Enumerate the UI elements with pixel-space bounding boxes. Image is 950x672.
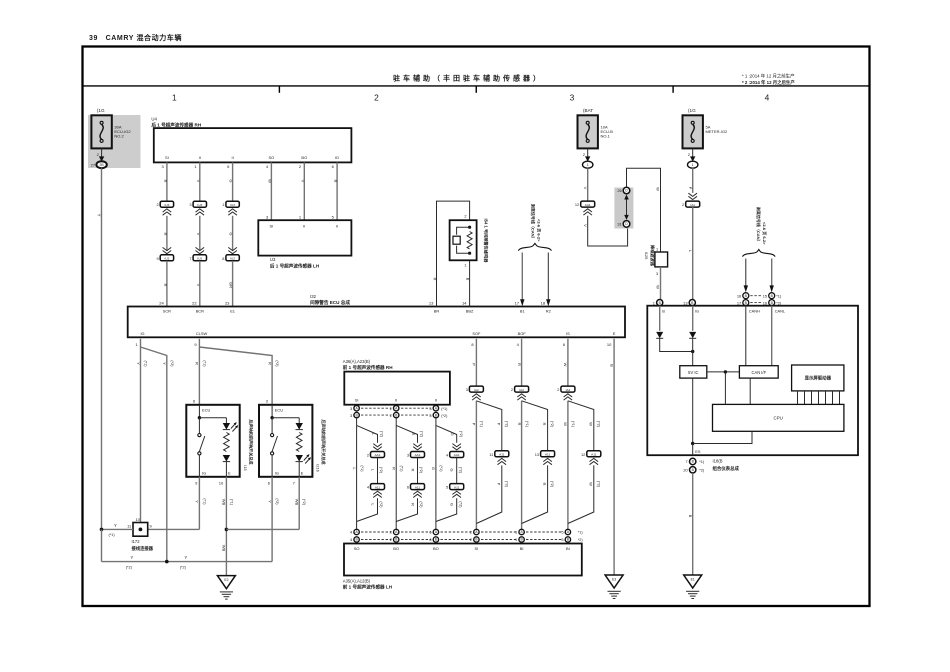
wire R (*2) rejoin — [396, 498, 423, 521]
fuse ECU-B NO.1 (10A) — [578, 108, 614, 168]
svg-text:BBZ: BBZ — [466, 309, 474, 314]
diagram outer frame — [83, 47, 870, 607]
svg-text:27: 27 — [91, 162, 96, 167]
svg-text:WB: WB — [295, 499, 300, 506]
wire R (*1) IA2 to connector — [517, 401, 529, 529]
front sensor A36 label — [343, 359, 393, 371]
connector IA2 pin 2 — [557, 386, 575, 400]
clearance warning ECU I32 label — [310, 294, 350, 306]
svg-text:后 1 号超声波传感器 LH: 后 1 号超声波传感器 LH — [270, 262, 320, 269]
svg-text:(*1): (*1) — [144, 360, 148, 367]
CAN I/F block — [739, 366, 778, 378]
svg-text:IG: IG — [695, 309, 699, 314]
dashes A35 connector row B — [361, 538, 583, 542]
svg-text:Y: Y — [185, 555, 188, 560]
svg-text:* 2 :2014 年 12 月之后生产: * 2 :2014 年 12 月之后生产 — [742, 79, 795, 86]
svg-text:(*2): (*2) — [380, 431, 384, 438]
svg-text:W: W — [588, 482, 593, 486]
wire Y (*1) ECU pin 1 down — [136, 339, 148, 523]
svg-text:P: P — [496, 483, 501, 486]
svg-text:ID: ID — [335, 155, 339, 160]
svg-text:(*2): (*2) — [419, 501, 423, 508]
wire Y (*2) bottom run — [102, 529, 273, 569]
fuse METER-IG2 (5A) — [683, 108, 729, 168]
svg-text:E3: E3 — [612, 578, 616, 582]
svg-text:NO.1: NO.1 — [601, 134, 611, 139]
svg-text:(*2): (*2) — [596, 481, 600, 488]
svg-text:(*2): (*2) — [504, 481, 508, 488]
svg-text:2: 2 — [157, 202, 159, 207]
svg-text:II: II — [303, 223, 305, 228]
clearance warning ECU I32 box — [128, 307, 625, 338]
svg-text:P: P — [688, 187, 693, 190]
connector 1(A)/1(B) above A35 — [515, 529, 524, 542]
svg-text:V: V — [583, 224, 588, 227]
wire R (*2) branch to A11 — [522, 401, 555, 451]
svg-text:SI: SI — [475, 546, 479, 551]
wire L (*1) straight — [352, 418, 364, 529]
wire W (*2) A11 down — [568, 465, 601, 523]
svg-text:驻车辅助（丰田驻车辅助传感器）: 驻车辅助（丰田驻车辅助传感器） — [393, 74, 543, 83]
wire L (*2) rejoin — [357, 498, 384, 521]
svg-text:23: 23 — [225, 300, 230, 305]
wire R IU2 to ECU pin 24 — [159, 261, 168, 307]
svg-text:ECU: ECU — [275, 407, 283, 412]
sonar switch I15 label — [243, 419, 255, 470]
connector AA1 pin 4 — [446, 444, 464, 458]
svg-text:1: 1 — [692, 163, 694, 167]
svg-text:10: 10 — [607, 342, 612, 347]
svg-text:Y: Y — [131, 555, 134, 560]
connector 26(D) — [617, 187, 629, 194]
svg-text:IU3: IU3 — [230, 203, 235, 207]
svg-text:9: 9 — [157, 256, 159, 261]
connector A11 pin 4 — [367, 484, 385, 498]
svg-text:*1): *1) — [776, 293, 782, 298]
svg-text:R: R — [517, 363, 522, 366]
svg-text:R: R — [432, 278, 437, 281]
svg-text:W: W — [563, 363, 568, 367]
svg-text:U4: U4 — [151, 117, 157, 122]
svg-text:(*1): (*1) — [571, 421, 575, 428]
svg-text:7: 7 — [686, 459, 688, 464]
svg-text:SI: SI — [270, 223, 274, 228]
connector IU3 pin 2 — [157, 201, 174, 215]
svg-text:接线连接器: 接线连接器 — [132, 545, 154, 552]
svg-text:CAN I/F: CAN I/F — [752, 370, 767, 375]
wire IG into meter — [692, 306, 694, 331]
svg-text:METER-IG2: METER-IG2 — [706, 129, 729, 134]
svg-text:26: 26 — [617, 188, 621, 193]
svg-text:(*1): (*1) — [229, 499, 233, 506]
connector IA1 pin 2 — [682, 193, 700, 207]
svg-text:39 CAMRY 混合动力车辆: 39 CAMRY 混合动力车辆 — [89, 33, 182, 42]
wire B ECU pin 10 to ground — [609, 339, 614, 575]
svg-text:AA1: AA1 — [375, 453, 381, 457]
svg-text:(*1): (*1) — [202, 498, 206, 505]
svg-text:R: R — [267, 362, 272, 365]
connector A11 pin 6 — [407, 484, 425, 498]
svg-text:(1G: (1G — [97, 108, 105, 113]
svg-text:(*2): (*2) — [302, 499, 306, 506]
wire CANL to CAN I/F — [771, 306, 773, 366]
connector 7(B)/20(B) below meter — [683, 458, 705, 473]
ultrasonic sensor U4 label — [151, 117, 201, 129]
svg-text:18: 18 — [541, 300, 546, 305]
svg-text:CANL: CANL — [775, 309, 786, 314]
svg-text:10: 10 — [219, 481, 224, 486]
svg-text:12: 12 — [581, 452, 585, 457]
wire Y to I172 pin 11 — [100, 523, 133, 537]
connector 4(A)/4(B) above A35 — [350, 529, 359, 542]
svg-text:2: 2 — [557, 387, 559, 392]
svg-text:P: P — [472, 423, 477, 426]
svg-text:E: E — [613, 331, 616, 336]
svg-text:Y: Y — [114, 523, 117, 528]
wire R IU3 to IU2 — [163, 216, 168, 251]
svg-text:2: 2 — [374, 93, 379, 103]
svg-text:(*1): (*1) — [109, 533, 116, 537]
wire R (*2) between connectors — [411, 458, 424, 484]
svg-text:前 1 号超声波传感器 LH: 前 1 号超声波传感器 LH — [343, 583, 393, 590]
svg-text:13: 13 — [683, 300, 687, 305]
connector 15(B)/16(B) pair — [763, 293, 782, 306]
svg-text:(*1): (*1) — [441, 407, 448, 411]
svg-text:ES: ES — [695, 449, 701, 454]
svg-text:V: V — [300, 180, 305, 183]
ground E2 — [217, 576, 235, 600]
noise filter I125 label — [644, 245, 656, 267]
svg-text:I172: I172 — [132, 539, 141, 544]
svg-text:2: 2 — [511, 387, 513, 392]
wire G U4 to IU3 — [229, 162, 234, 201]
svg-text:3: 3 — [189, 202, 191, 207]
svg-text:V: V — [196, 233, 201, 236]
wire G (*1) straight — [431, 418, 443, 529]
svg-text:8: 8 — [222, 256, 224, 261]
svg-text:I32: I32 — [310, 294, 317, 299]
svg-text:G: G — [229, 179, 234, 182]
svg-text:13: 13 — [535, 452, 539, 457]
svg-text:后声呐和前声呐开关总成: 后声呐和前声呐开关总成 — [321, 419, 327, 464]
connector 1(A)/1(B) below A36 — [390, 406, 399, 418]
wire P (*2) branch to A11 — [476, 401, 508, 451]
svg-text:IA2: IA2 — [474, 388, 479, 392]
meter I18 designation — [713, 459, 740, 473]
svg-text:(*2): (*2) — [550, 481, 554, 488]
front ultrasonic sensor A36 box — [344, 372, 450, 405]
ECU I32 CAN pin numbers — [515, 300, 546, 305]
ground E1 (meter) — [684, 575, 702, 599]
connector IA2 pin 3 — [466, 386, 484, 400]
svg-text:24: 24 — [159, 300, 164, 305]
wire WB (*1) switch I15 to ground — [222, 477, 234, 575]
connector AA1 pin 3 — [407, 444, 425, 458]
svg-text:1: 1 — [222, 202, 224, 207]
svg-text:CANH: CANH — [749, 309, 760, 314]
connector IA2 pin 2 — [511, 386, 529, 400]
sonar switch I216 label — [316, 419, 328, 471]
svg-text:(*2): (*2) — [275, 360, 279, 367]
svg-text:R: R — [163, 180, 168, 183]
sonar switch I15 box — [186, 399, 239, 486]
svg-text:U3: U3 — [270, 257, 276, 262]
svg-text:31: 31 — [617, 222, 621, 227]
wire R (*2) A11 down — [522, 465, 555, 523]
svg-text:II: II — [395, 398, 397, 403]
svg-text:15: 15 — [763, 293, 767, 298]
svg-text:R: R — [411, 503, 416, 506]
svg-text:I18(B: I18(B — [713, 459, 723, 464]
svg-text:E: E — [301, 470, 304, 475]
svg-text:*1): *1) — [578, 531, 584, 535]
svg-text:9: 9 — [150, 524, 152, 529]
ultrasonic sensor U3 — [258, 220, 351, 255]
wire W (*2) branch to A11 — [568, 401, 601, 451]
svg-text:间隙警告 ECU 总成: 间隙警告 ECU 总成 — [310, 299, 350, 306]
svg-text:11: 11 — [127, 524, 131, 529]
display driver to CPU comb — [798, 391, 840, 405]
svg-text:P: P — [472, 363, 477, 366]
svg-text:G: G — [450, 503, 455, 506]
sonar switch I216 box — [259, 399, 312, 486]
wire B meter to ground — [688, 473, 693, 575]
front sensor A35 label — [343, 578, 393, 590]
svg-text:W: W — [588, 422, 593, 426]
svg-text:R: R — [517, 423, 522, 426]
svg-text:3: 3 — [570, 93, 575, 103]
svg-text:A36(A),A23(B): A36(A),A23(B) — [343, 359, 371, 364]
junction connector I172 — [127, 517, 152, 536]
dashes A36 connector row B — [361, 414, 448, 418]
svg-text:Y: Y — [136, 362, 141, 365]
svg-text:B1: B1 — [520, 309, 525, 314]
svg-text:SI: SI — [165, 155, 169, 160]
production notes — [742, 73, 795, 86]
svg-text:(*2): (*2) — [126, 566, 133, 570]
svg-text:G: G — [450, 468, 455, 471]
connector 2(A)/2(B) above A35 — [390, 529, 399, 542]
svg-text:(*2): (*2) — [459, 431, 463, 438]
svg-text:(*2): (*2) — [458, 501, 462, 508]
svg-text:E1: E1 — [230, 309, 235, 314]
wire ES node to meter pin ES — [693, 444, 701, 456]
svg-text:13: 13 — [429, 300, 434, 305]
svg-text:IG: IG — [202, 470, 206, 475]
wire V IU2 to ECU pin 22 — [192, 261, 201, 307]
svg-text:I54 1 号间隙警告蜂鸣器: I54 1 号间隙警告蜂鸣器 — [483, 219, 490, 264]
wire CANH to CAN I/F — [745, 306, 747, 366]
wire Y (*1) switch I15 to I172 — [148, 477, 207, 530]
connector IU3 pin 1 — [222, 201, 239, 215]
svg-text:SCR: SCR — [163, 309, 171, 314]
wire V AA1 to connector 31(D) — [583, 216, 628, 246]
svg-text:(BAT: (BAT — [583, 108, 593, 113]
connector A11 pin 12 — [581, 451, 601, 465]
svg-text:(*1): (*1) — [360, 465, 364, 472]
ECU I32 buzzer pin numbers — [429, 300, 467, 305]
pass-through arrows between 26(D) and 31(D) — [624, 195, 629, 220]
svg-text:5: 5 — [561, 530, 563, 535]
wire P fuse to IA1 — [688, 168, 693, 193]
svg-text:CLSW: CLSW — [196, 331, 208, 336]
diode D1 (B line) — [656, 332, 663, 338]
svg-text:Y: Y — [97, 214, 102, 217]
svg-text:剥离信号线（CAN）: 剥离信号线（CAN） — [531, 203, 537, 241]
wire G (*2) between connectors — [450, 458, 463, 484]
wire CPU to ES node — [693, 431, 752, 443]
combination meter I18 box — [647, 306, 858, 456]
connector A11 pin 11 — [489, 451, 509, 465]
wire L (*2) between connectors — [371, 458, 384, 484]
svg-text:A11: A11 — [591, 453, 597, 457]
svg-text:前 1 号超声波传感器 RH: 前 1 号超声波传感器 RH — [343, 364, 393, 371]
svg-text:BCR: BCR — [196, 309, 204, 314]
svg-text:I216: I216 — [316, 464, 321, 472]
svg-text:2: 2 — [464, 214, 466, 219]
connector IU3 pin 3 — [189, 201, 206, 215]
svg-text:组合仪表总成: 组合仪表总成 — [713, 465, 740, 472]
svg-text:(*2): (*2) — [596, 421, 600, 428]
svg-text:AA1: AA1 — [454, 453, 460, 457]
wire P ECU to IA2 — [472, 339, 477, 386]
wire V IU3 to IU2 — [196, 216, 201, 251]
svg-text:(*1): (*1) — [480, 421, 484, 428]
svg-text:G: G — [450, 432, 455, 435]
svg-text:II: II — [336, 223, 338, 228]
svg-text:(*2): (*2) — [458, 467, 462, 474]
svg-text:1: 1 — [464, 263, 466, 268]
svg-text:I125: I125 — [644, 252, 649, 261]
svg-text:R2: R2 — [546, 309, 551, 314]
noise filter I125 — [655, 246, 668, 276]
connector 13(B) at meter — [683, 300, 695, 306]
wire W ECU to IA2 — [563, 339, 568, 386]
ECU I32 top pin labels — [163, 309, 551, 314]
svg-text:3: 3 — [350, 406, 352, 411]
wire W (*1) IA2 to connector — [563, 401, 575, 529]
svg-text:IS: IS — [566, 331, 570, 336]
buzzer I54 internals — [453, 226, 472, 255]
svg-text:R: R — [542, 423, 547, 426]
wire B into meter — [659, 306, 661, 331]
svg-text:A11: A11 — [499, 453, 505, 457]
connector 31(D) — [617, 221, 629, 228]
wire diode D1 to IG node — [660, 338, 695, 353]
svg-text:B: B — [609, 364, 614, 367]
svg-text:(*2): (*2) — [180, 566, 187, 570]
svg-text:NO.2: NO.2 — [114, 134, 124, 139]
wire Y from fuse to junction — [97, 168, 102, 529]
svg-text:*2): *2) — [699, 468, 705, 473]
svg-text:7: 7 — [189, 256, 191, 261]
CAN note text (meter) — [756, 206, 768, 245]
svg-text:(*2): (*2) — [170, 360, 174, 367]
svg-text:*2): *2) — [578, 538, 584, 542]
wire G (*2) branch upper — [436, 425, 463, 442]
svg-text:II: II — [435, 398, 437, 403]
svg-text:E1: E1 — [691, 578, 695, 582]
svg-text:(*2): (*2) — [275, 498, 279, 505]
svg-text:IU3: IU3 — [164, 203, 169, 207]
buzzer I54 box — [450, 220, 477, 260]
connector 6(A)/6(B) above A35 — [429, 529, 438, 542]
svg-text:(*1): (*1) — [525, 421, 529, 428]
wire R (*2) branch upper — [396, 425, 424, 442]
svg-text:B: B — [465, 278, 470, 281]
wire V U4 to IU3 — [196, 162, 201, 201]
svg-text:IA2: IA2 — [566, 388, 571, 392]
svg-text:BO: BO — [433, 546, 439, 551]
column ticks — [279, 86, 673, 93]
svg-text:显示屏驱动器: 显示屏驱动器 — [805, 375, 832, 382]
svg-text:3: 3 — [350, 413, 352, 418]
svg-text:E2: E2 — [224, 578, 228, 582]
wire V U4 to U3 pin 1 — [299, 162, 306, 220]
display driver block — [792, 365, 844, 391]
svg-text:(*2): (*2) — [504, 421, 508, 428]
svg-text:IG: IG — [275, 470, 279, 475]
svg-text:BI: BI — [520, 546, 524, 551]
svg-text:2: 2 — [682, 202, 684, 207]
svg-text:R: R — [195, 362, 200, 365]
dashes A35 connector row A — [361, 531, 583, 535]
connector IU2 pin 9 — [157, 247, 174, 260]
svg-text:IU2: IU2 — [197, 257, 202, 261]
svg-text:Y: Y — [162, 362, 167, 365]
svg-text:II: II — [199, 155, 201, 160]
connector 2(A)/2(B) above A35 — [470, 529, 479, 542]
wire P (*2) A11 down — [476, 465, 508, 523]
svg-text:(*2): (*2) — [379, 501, 383, 508]
svg-text:(*1): (*1) — [202, 360, 206, 367]
svg-text:6: 6 — [407, 485, 409, 490]
wire diode D2 to 5V IC — [692, 338, 694, 365]
svg-text:12: 12 — [575, 202, 579, 207]
svg-text:SI: SI — [355, 398, 359, 403]
svg-text:* 1 :2014 年 12 月之前生产: * 1 :2014 年 12 月之前生产 — [742, 73, 795, 80]
svg-text:17: 17 — [515, 300, 520, 305]
svg-text:3: 3 — [656, 271, 658, 276]
svg-text:BO: BO — [301, 155, 307, 160]
svg-text:A11: A11 — [545, 453, 551, 457]
svg-text:AA1: AA1 — [585, 203, 591, 207]
front ultrasonic sensor A35 box — [344, 544, 582, 576]
wire 5V IC to CAN I/F — [707, 370, 740, 404]
svg-text:14: 14 — [462, 300, 467, 305]
wire R U4 to U3 pin 5 — [332, 162, 339, 220]
connector 1(B) at meter — [653, 300, 663, 306]
svg-text:R: R — [333, 180, 338, 183]
connector IU2 pin 7 — [189, 247, 206, 260]
svg-text:5V IC: 5V IC — [688, 370, 698, 375]
wire L (*2) branch upper — [357, 425, 384, 442]
svg-text:IU3: IU3 — [197, 203, 202, 207]
svg-text:R: R — [542, 483, 547, 486]
wire G IU3 to IU2 — [229, 216, 234, 251]
svg-text:A11: A11 — [454, 485, 460, 489]
svg-text:IU2: IU2 — [230, 257, 235, 261]
title — [393, 74, 543, 83]
svg-text:5: 5 — [446, 485, 448, 490]
svg-text:R: R — [163, 284, 168, 287]
svg-text:*1): *1) — [699, 459, 705, 464]
svg-text:1: 1 — [656, 246, 658, 251]
svg-text:后声呐和前声呐开关总成: 后声呐和前声呐开关总成 — [249, 419, 255, 464]
CPU block — [713, 404, 844, 431]
connector 5(A)/5(B) above A35 — [561, 529, 570, 542]
svg-text:*2): *2) — [776, 300, 782, 305]
